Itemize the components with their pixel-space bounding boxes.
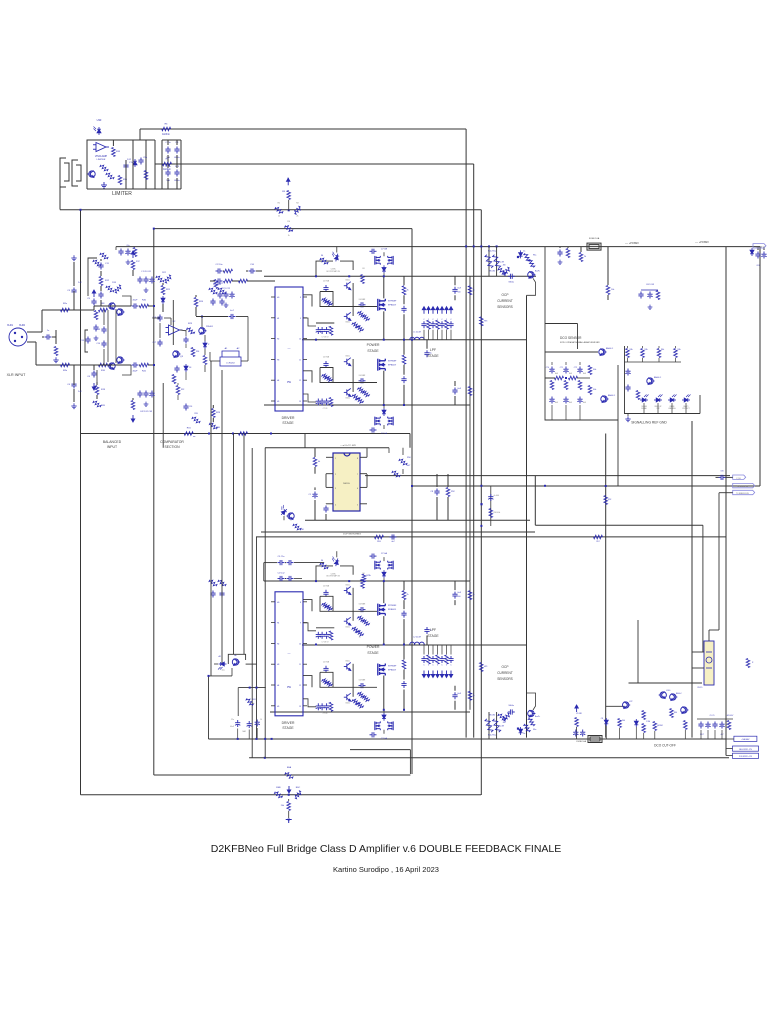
res RM4 bbox=[446, 474, 455, 520]
svg-text:10: 10 bbox=[299, 643, 301, 645]
svg-text:B1: B1 bbox=[362, 268, 364, 270]
wire h dcp-sw bbox=[256, 536, 726, 538]
label LIMITER bbox=[112, 191, 132, 197]
svg-text:C70: C70 bbox=[546, 367, 549, 369]
label OSC bbox=[340, 444, 356, 447]
wire h top supply bbox=[264, 275, 536, 277]
svg-text:R35: R35 bbox=[123, 179, 128, 181]
svg-text:40uF: 40uF bbox=[133, 300, 139, 302]
wire4c bbox=[243, 434, 245, 655]
transistor QC3 bbox=[670, 693, 683, 700]
svg-text:C_D0: C_D0 bbox=[736, 478, 741, 480]
junction bbox=[473, 245, 475, 247]
wire h bot g bbox=[81, 794, 482, 796]
capacitor C11 bbox=[98, 259, 109, 276]
svg-text:MAC: MAC bbox=[242, 730, 246, 733]
cap CS1 bbox=[625, 369, 630, 392]
res R5A bbox=[523, 253, 536, 269]
svg-text:STAGE: STAGE bbox=[282, 726, 294, 730]
res R61 bbox=[246, 697, 256, 706]
wire3 bbox=[209, 434, 212, 740]
wire h bot e bbox=[154, 774, 411, 776]
junction bbox=[480, 245, 482, 247]
resistor R2 bbox=[293, 203, 302, 218]
capacitor C14 bbox=[96, 341, 106, 348]
fb cluster bbox=[480, 485, 546, 527]
wire xlr cold bbox=[27, 342, 74, 365]
svg-text:—-u\ Ur TC 4XX: —-u\ Ur TC 4XX bbox=[340, 444, 356, 447]
svg-text:2u2: 2u2 bbox=[78, 282, 82, 284]
wire xlr hot bbox=[27, 310, 74, 332]
capacitor C7a bbox=[123, 162, 133, 170]
cap CM4 bbox=[390, 534, 397, 543]
svg-text:2C: 2C bbox=[359, 636, 362, 638]
svg-text:C72: C72 bbox=[574, 367, 577, 369]
transistor Q30 bbox=[88, 164, 115, 181]
wire bus v470 bbox=[469, 405, 471, 581]
svg-text:2C: 2C bbox=[359, 332, 362, 334]
svg-text:C3: C3 bbox=[67, 290, 71, 292]
cap C60 bbox=[557, 247, 569, 265]
driver IC UB box bbox=[275, 592, 303, 716]
svg-text:STAGE: STAGE bbox=[367, 349, 379, 353]
bootstrap box B0 bbox=[316, 566, 353, 582]
wire h mid c2 bbox=[261, 531, 535, 533]
zobel2 B bbox=[401, 645, 406, 710]
svg-text:R4a R5a: R4a R5a bbox=[488, 735, 497, 737]
resistor R3 bbox=[282, 191, 290, 211]
svg-text:2u2: 2u2 bbox=[78, 391, 82, 393]
dco box wires bbox=[545, 352, 618, 486]
capacitor C13 bbox=[96, 327, 106, 334]
junction bbox=[80, 209, 82, 211]
res mid pair bbox=[156, 272, 173, 283]
svg-text:R1: R1 bbox=[278, 203, 281, 205]
resistor R12 bbox=[99, 277, 110, 292]
svg-text:R3: R3 bbox=[282, 191, 286, 193]
transistor QB3 bbox=[344, 660, 351, 670]
fb terminal tag2 bbox=[733, 483, 755, 488]
diode DC2 bbox=[634, 719, 638, 739]
svg-text:C5 C5a: C5 C5a bbox=[278, 556, 286, 558]
svg-text:C2 R4B: C2 R4B bbox=[323, 357, 330, 359]
wire drain A bbox=[383, 276, 385, 405]
capacitor C1 bbox=[42, 330, 59, 363]
svg-text:TL SNSOD 80: TL SNSOD 80 bbox=[737, 486, 748, 488]
diode D12 bbox=[127, 159, 137, 167]
wire pin conn bbox=[0, 0, 1, 1]
wire ocp drop2 A bbox=[496, 246, 498, 276]
svg-text:R20: R20 bbox=[101, 405, 106, 407]
resistor R6 1kOhm bbox=[162, 124, 171, 137]
svg-text:C8: C8 bbox=[601, 718, 603, 720]
wire cmp stub bbox=[185, 330, 187, 380]
wire h top out bbox=[302, 339, 527, 341]
resistor R6B bbox=[274, 787, 283, 799]
svg-text:-MC3M: -MC3M bbox=[657, 725, 663, 727]
wire y306 B1 bbox=[333, 686, 377, 688]
wire q out bbox=[96, 370, 98, 382]
wire y306 B0 bbox=[333, 610, 377, 612]
vcc chain bot bbox=[131, 398, 135, 422]
capacitor CA2 bbox=[210, 278, 240, 283]
svg-text:OCP: OCP bbox=[502, 665, 509, 669]
transistor pair Q1b bbox=[108, 357, 125, 370]
svg-text:12: 12 bbox=[299, 685, 301, 687]
svg-text:D2KFBNeo Full Bridge Class D A: D2KFBNeo Full Bridge Class D Amplifier v… bbox=[211, 843, 562, 855]
capacitor C16 bbox=[152, 315, 162, 322]
wire ocp drop1 B bbox=[488, 712, 490, 739]
cap CM2 bbox=[323, 504, 328, 521]
svg-text:12: 12 bbox=[299, 380, 301, 382]
svg-text:C7 C8 C9: C7 C8 C9 bbox=[322, 337, 329, 339]
caps 40uF trio bbox=[230, 719, 272, 740]
wire dco feed bbox=[545, 247, 578, 352]
res RC1 bbox=[618, 719, 625, 740]
cap D4 B1 bbox=[359, 680, 366, 689]
opamp VINCLAMP bbox=[93, 143, 109, 162]
svg-text:D4 MBR: D4 MBR bbox=[359, 604, 366, 606]
res R5x B0 bbox=[361, 573, 365, 589]
svg-text:H3: H3 bbox=[277, 359, 279, 361]
svg-text:A1: A1 bbox=[218, 655, 221, 658]
resistor R35 bbox=[118, 176, 128, 185]
svg-text:—- +POSMV: —- +POSMV bbox=[695, 241, 709, 244]
svg-text:C8: C8 bbox=[430, 491, 433, 493]
svg-text:C5: C5 bbox=[87, 298, 91, 300]
svg-text:ow: ow bbox=[193, 436, 196, 438]
wire y687 bbox=[238, 687, 266, 716]
svg-text:C2 VbE: C2 VbE bbox=[381, 433, 388, 435]
svg-text:LC40: LC40 bbox=[666, 690, 670, 692]
cap D4 A1 bbox=[359, 375, 366, 384]
pin stairs A1 bbox=[303, 371, 316, 402]
wire bbox=[545, 377, 590, 379]
wire6 bbox=[256, 537, 258, 739]
svg-text:POWER: POWER bbox=[367, 343, 380, 347]
wire lpf vert A bbox=[469, 276, 471, 405]
svg-text:2k: 2k bbox=[407, 289, 409, 291]
res RC5 bbox=[684, 721, 688, 740]
res R34 bbox=[191, 348, 199, 357]
svg-text:R23: R23 bbox=[188, 323, 193, 325]
svg-text:R50: R50 bbox=[407, 457, 412, 459]
svg-text:C24: C24 bbox=[189, 406, 192, 408]
svg-text:C: C bbox=[432, 665, 434, 667]
svg-text:Kartino Surodipo , 16 April 20: Kartino Surodipo , 16 April 2023 bbox=[333, 865, 439, 874]
cap Cd A1 bbox=[322, 373, 333, 382]
svg-text:D12: D12 bbox=[127, 159, 132, 161]
wire h dco rail bbox=[209, 738, 727, 740]
svg-text:4k: 4k bbox=[318, 461, 320, 463]
wire h limiter-out1 bbox=[169, 128, 466, 130]
svg-text:C2a: C2a bbox=[231, 719, 234, 721]
svg-text:9: 9 bbox=[300, 623, 301, 625]
svg-text:DRIVER: DRIVER bbox=[282, 721, 295, 725]
wire limiter to bus bbox=[140, 129, 169, 164]
svg-text:R92: R92 bbox=[608, 499, 611, 501]
cap CL2 bbox=[210, 591, 224, 598]
svg-text:C/2 10n: C/2 10n bbox=[215, 264, 222, 266]
svg-text:C4: C4 bbox=[67, 384, 71, 386]
svg-text:G/b2L: G/b2L bbox=[345, 398, 350, 400]
svg-text:N/A 4u: N/A 4u bbox=[509, 280, 514, 283]
svg-text:H4: H4 bbox=[277, 380, 279, 382]
svg-text:STAGE: STAGE bbox=[282, 421, 294, 425]
res fb2 bbox=[604, 496, 611, 505]
resistor R9 1kOhm bbox=[163, 159, 172, 172]
svg-text:C0a: C0a bbox=[126, 245, 129, 247]
svg-text:TO SNSOD FCE: TO SNSOD FCE bbox=[736, 493, 750, 495]
svg-text:D6: D6 bbox=[321, 560, 323, 562]
box wires A1 bbox=[320, 368, 333, 383]
wire left frame bbox=[88, 258, 97, 296]
svg-text:R2: R2 bbox=[296, 203, 299, 205]
resistor R24 bbox=[194, 295, 204, 316]
capacitor C12 bbox=[98, 292, 103, 307]
svg-text:J80: J80 bbox=[503, 264, 506, 266]
svg-text:Da: Da bbox=[523, 250, 525, 252]
svg-text:ZD BR: ZD BR bbox=[576, 713, 582, 715]
capacitor C40a bbox=[132, 300, 149, 309]
label OCP CURRENT SENSORS B bbox=[497, 665, 513, 681]
limiter box bbox=[87, 129, 155, 189]
svg-text:4u 400: 4u 400 bbox=[494, 495, 500, 497]
transistor QD2 bbox=[601, 394, 616, 402]
svg-text:N/A: N/A bbox=[569, 372, 573, 375]
diode Z1 bbox=[203, 335, 210, 349]
capacitor C2b bbox=[67, 382, 82, 394]
svg-text:STP80NF: STP80NF bbox=[388, 666, 397, 668]
svg-text:1k: 1k bbox=[288, 235, 290, 237]
label LPF STAGE B bbox=[427, 628, 439, 638]
svg-text:C15: C15 bbox=[80, 340, 85, 342]
driver IC UA box bbox=[275, 287, 303, 411]
res R44 B0 bbox=[352, 626, 364, 638]
diode D3 bbox=[184, 364, 191, 372]
svg-text:D6: D6 bbox=[321, 255, 323, 257]
svg-text:4u7: 4u7 bbox=[230, 310, 234, 312]
connector J2 bracket bbox=[72, 160, 81, 186]
svg-text:PW: PW bbox=[287, 686, 292, 689]
wire bus v3 bbox=[410, 229, 412, 774]
svg-text:DCO CUT-OFF: DCO CUT-OFF bbox=[654, 744, 676, 748]
wire tag3 route bbox=[709, 493, 733, 641]
svg-text:PW: PW bbox=[287, 381, 292, 384]
svg-text:STAGE: STAGE bbox=[427, 354, 439, 358]
pin stairs B0 bbox=[303, 600, 316, 631]
res RC3 bbox=[653, 722, 663, 740]
svg-text:C62 C63: C62 C63 bbox=[646, 284, 655, 286]
wire h bot supply bbox=[264, 580, 470, 582]
svg-text:1n: 1n bbox=[47, 330, 50, 332]
svg-text:STAGE: STAGE bbox=[427, 634, 439, 638]
wire h mid c bbox=[535, 525, 703, 652]
svg-text:H5: H5 bbox=[277, 401, 279, 403]
cap D4 B0 bbox=[359, 604, 366, 613]
svg-text:C2 VbE: C2 VbE bbox=[381, 738, 388, 740]
cap C25 bbox=[183, 337, 188, 344]
svg-text:DRIVER: DRIVER bbox=[282, 416, 295, 420]
wire bus v12 bbox=[725, 247, 727, 756]
IC U10 NE555 (yellow) bbox=[333, 453, 360, 511]
svg-text:LIMITER: LIMITER bbox=[97, 159, 106, 161]
wire bus v8 bbox=[526, 295, 528, 737]
power MOSFET QBP2 bbox=[378, 664, 397, 676]
junction bbox=[208, 433, 210, 435]
transistor pair Q1a bbox=[108, 303, 125, 316]
wire y306 bbox=[94, 305, 131, 307]
res RAv1 bbox=[468, 286, 474, 295]
cap CM3 bbox=[430, 474, 439, 520]
svg-text:R40: R40 bbox=[142, 300, 147, 302]
resistor R10 bbox=[99, 363, 108, 372]
wire h fb2 bbox=[412, 485, 760, 487]
svg-text:U2: U2 bbox=[173, 321, 177, 323]
svg-text:L2 22uH: L2 22uH bbox=[413, 637, 421, 639]
svg-text:8: 8 bbox=[300, 602, 301, 604]
svg-text:C7 C8: C7 C8 bbox=[323, 408, 328, 410]
res on v6 A bbox=[480, 317, 488, 326]
resistor R38 bbox=[144, 171, 148, 180]
junction bbox=[232, 433, 234, 435]
resistor R14 bbox=[93, 311, 98, 341]
transistor QA3 bbox=[344, 356, 351, 366]
svg-text:2k: 2k bbox=[407, 594, 409, 596]
clamp pair hi B bbox=[370, 553, 394, 581]
res RM1 bbox=[313, 448, 320, 474]
wire qv B1 bbox=[352, 664, 354, 697]
junction bbox=[153, 228, 155, 230]
relay K1 bbox=[698, 641, 714, 689]
svg-text:SECTION: SECTION bbox=[164, 445, 180, 449]
svg-text:BA000 C: BA000 C bbox=[654, 376, 662, 379]
svg-text:C61: C61 bbox=[756, 265, 759, 267]
wire caps join B bbox=[263, 563, 265, 581]
title text bbox=[211, 843, 562, 855]
svg-text:C7 C8: C7 C8 bbox=[323, 713, 328, 715]
label DCO CUT-OFF bbox=[654, 744, 676, 748]
svg-text:NE555: NE555 bbox=[343, 483, 350, 485]
transistor QS1 bbox=[647, 376, 662, 384]
cap C2 A0 bbox=[323, 281, 330, 293]
svg-text:+POSMV: +POSMV bbox=[756, 246, 764, 248]
svg-text:U33: U33 bbox=[97, 118, 102, 122]
svg-text:C2 VbE: C2 VbE bbox=[381, 553, 388, 555]
svg-text:N/A: N/A bbox=[569, 401, 573, 404]
res RBv2 bbox=[468, 691, 474, 700]
zobel RBz bbox=[401, 581, 408, 644]
svg-text:2N5401: 2N5401 bbox=[206, 326, 214, 328]
resistor R19 bbox=[95, 382, 106, 399]
cap CBo bbox=[508, 704, 515, 715]
junction bbox=[288, 794, 290, 796]
svg-text:10k: 10k bbox=[611, 289, 614, 291]
svg-text:11: 11 bbox=[299, 664, 301, 666]
svg-text:LCR0202: LCR0202 bbox=[226, 363, 235, 365]
svg-text:L1 22uH: L1 22uH bbox=[413, 332, 421, 334]
svg-text:J80 J80: J80 J80 bbox=[489, 270, 495, 272]
capacitor CB1 bbox=[264, 556, 324, 565]
svg-text:C: C bbox=[450, 665, 452, 667]
transistor QA4 bbox=[344, 388, 351, 399]
wire bbox=[148, 305, 155, 366]
res boot RA50 bbox=[320, 255, 329, 266]
LPF cap row B bbox=[421, 645, 453, 678]
vcc chain top bbox=[131, 251, 140, 276]
svg-text:BALANCED: BALANCED bbox=[103, 440, 122, 444]
capacitor C18 bbox=[172, 366, 179, 384]
svg-text:4n7: 4n7 bbox=[391, 541, 395, 543]
junction bbox=[264, 757, 266, 759]
driver IC UA pins bbox=[271, 297, 307, 403]
res RB40 bbox=[362, 574, 371, 582]
caps CC0 bbox=[573, 713, 585, 737]
wire bbox=[74, 291, 94, 385]
svg-text:H2: H2 bbox=[277, 339, 279, 341]
optocoupler A1/A2 LCR0202 bbox=[220, 347, 241, 366]
svg-text:J80: J80 bbox=[503, 722, 506, 724]
LED U3B0 bbox=[327, 551, 341, 577]
diode D2 bbox=[161, 296, 165, 312]
svg-text:C: C bbox=[423, 665, 425, 667]
transistor Q3 bbox=[173, 351, 184, 358]
wire tbar bbox=[160, 300, 173, 345]
svg-text:R/2A: R/2A bbox=[367, 574, 372, 577]
cluster right corner bbox=[750, 247, 767, 267]
wire h mid3 bbox=[60, 209, 481, 211]
junction bbox=[411, 339, 413, 341]
resistor R6A bbox=[285, 766, 294, 793]
wire bus v9 bbox=[534, 476, 536, 526]
svg-text:R6a: R6a bbox=[533, 254, 536, 256]
transistor QBo bbox=[528, 710, 540, 718]
LED DB1 bbox=[218, 655, 227, 672]
svg-text:RL15: RL15 bbox=[698, 687, 704, 689]
transistor QB1 bbox=[344, 584, 351, 594]
svg-text:SENSORS: SENSORS bbox=[497, 305, 513, 309]
wire h bot b bbox=[350, 749, 410, 751]
svg-text:STP80NF: STP80NF bbox=[388, 361, 397, 363]
wire cmp down bbox=[162, 383, 164, 448]
res RC0 vup bbox=[575, 705, 579, 739]
svg-text:R2b: R2b bbox=[63, 370, 68, 372]
wire h mid a bbox=[81, 434, 411, 448]
svg-text:R12: R12 bbox=[105, 280, 110, 282]
box wires B0 bbox=[320, 596, 333, 611]
svg-text:INPUT: INPUT bbox=[107, 445, 117, 449]
svg-text:C90: C90 bbox=[720, 471, 723, 473]
svg-text:2k: 2k bbox=[278, 216, 280, 218]
svg-text:R29: R29 bbox=[216, 412, 221, 414]
wire cmp bbox=[152, 318, 171, 325]
resistor R18 bbox=[106, 282, 123, 293]
label SIGNALLING REF GND bbox=[631, 421, 667, 425]
svg-text:IRFB4019: IRFB4019 bbox=[388, 609, 396, 611]
svg-text:C34: C34 bbox=[250, 264, 255, 266]
flag +POSMV bbox=[753, 244, 766, 249]
svg-text:COMPARATOR: COMPARATOR bbox=[160, 440, 184, 444]
res RAv2 bbox=[468, 387, 474, 396]
fuse F2 bbox=[577, 736, 602, 744]
svg-text:+NEGMV: +NEGMV bbox=[741, 739, 750, 741]
svg-text:H73: H73 bbox=[484, 320, 487, 322]
wire bus v5 bbox=[473, 164, 475, 738]
svg-text:8: 8 bbox=[300, 297, 301, 299]
res pair RL1 bbox=[209, 284, 227, 295]
junction bbox=[270, 433, 272, 435]
svg-text:40V 45V: 40V 45V bbox=[727, 715, 734, 717]
